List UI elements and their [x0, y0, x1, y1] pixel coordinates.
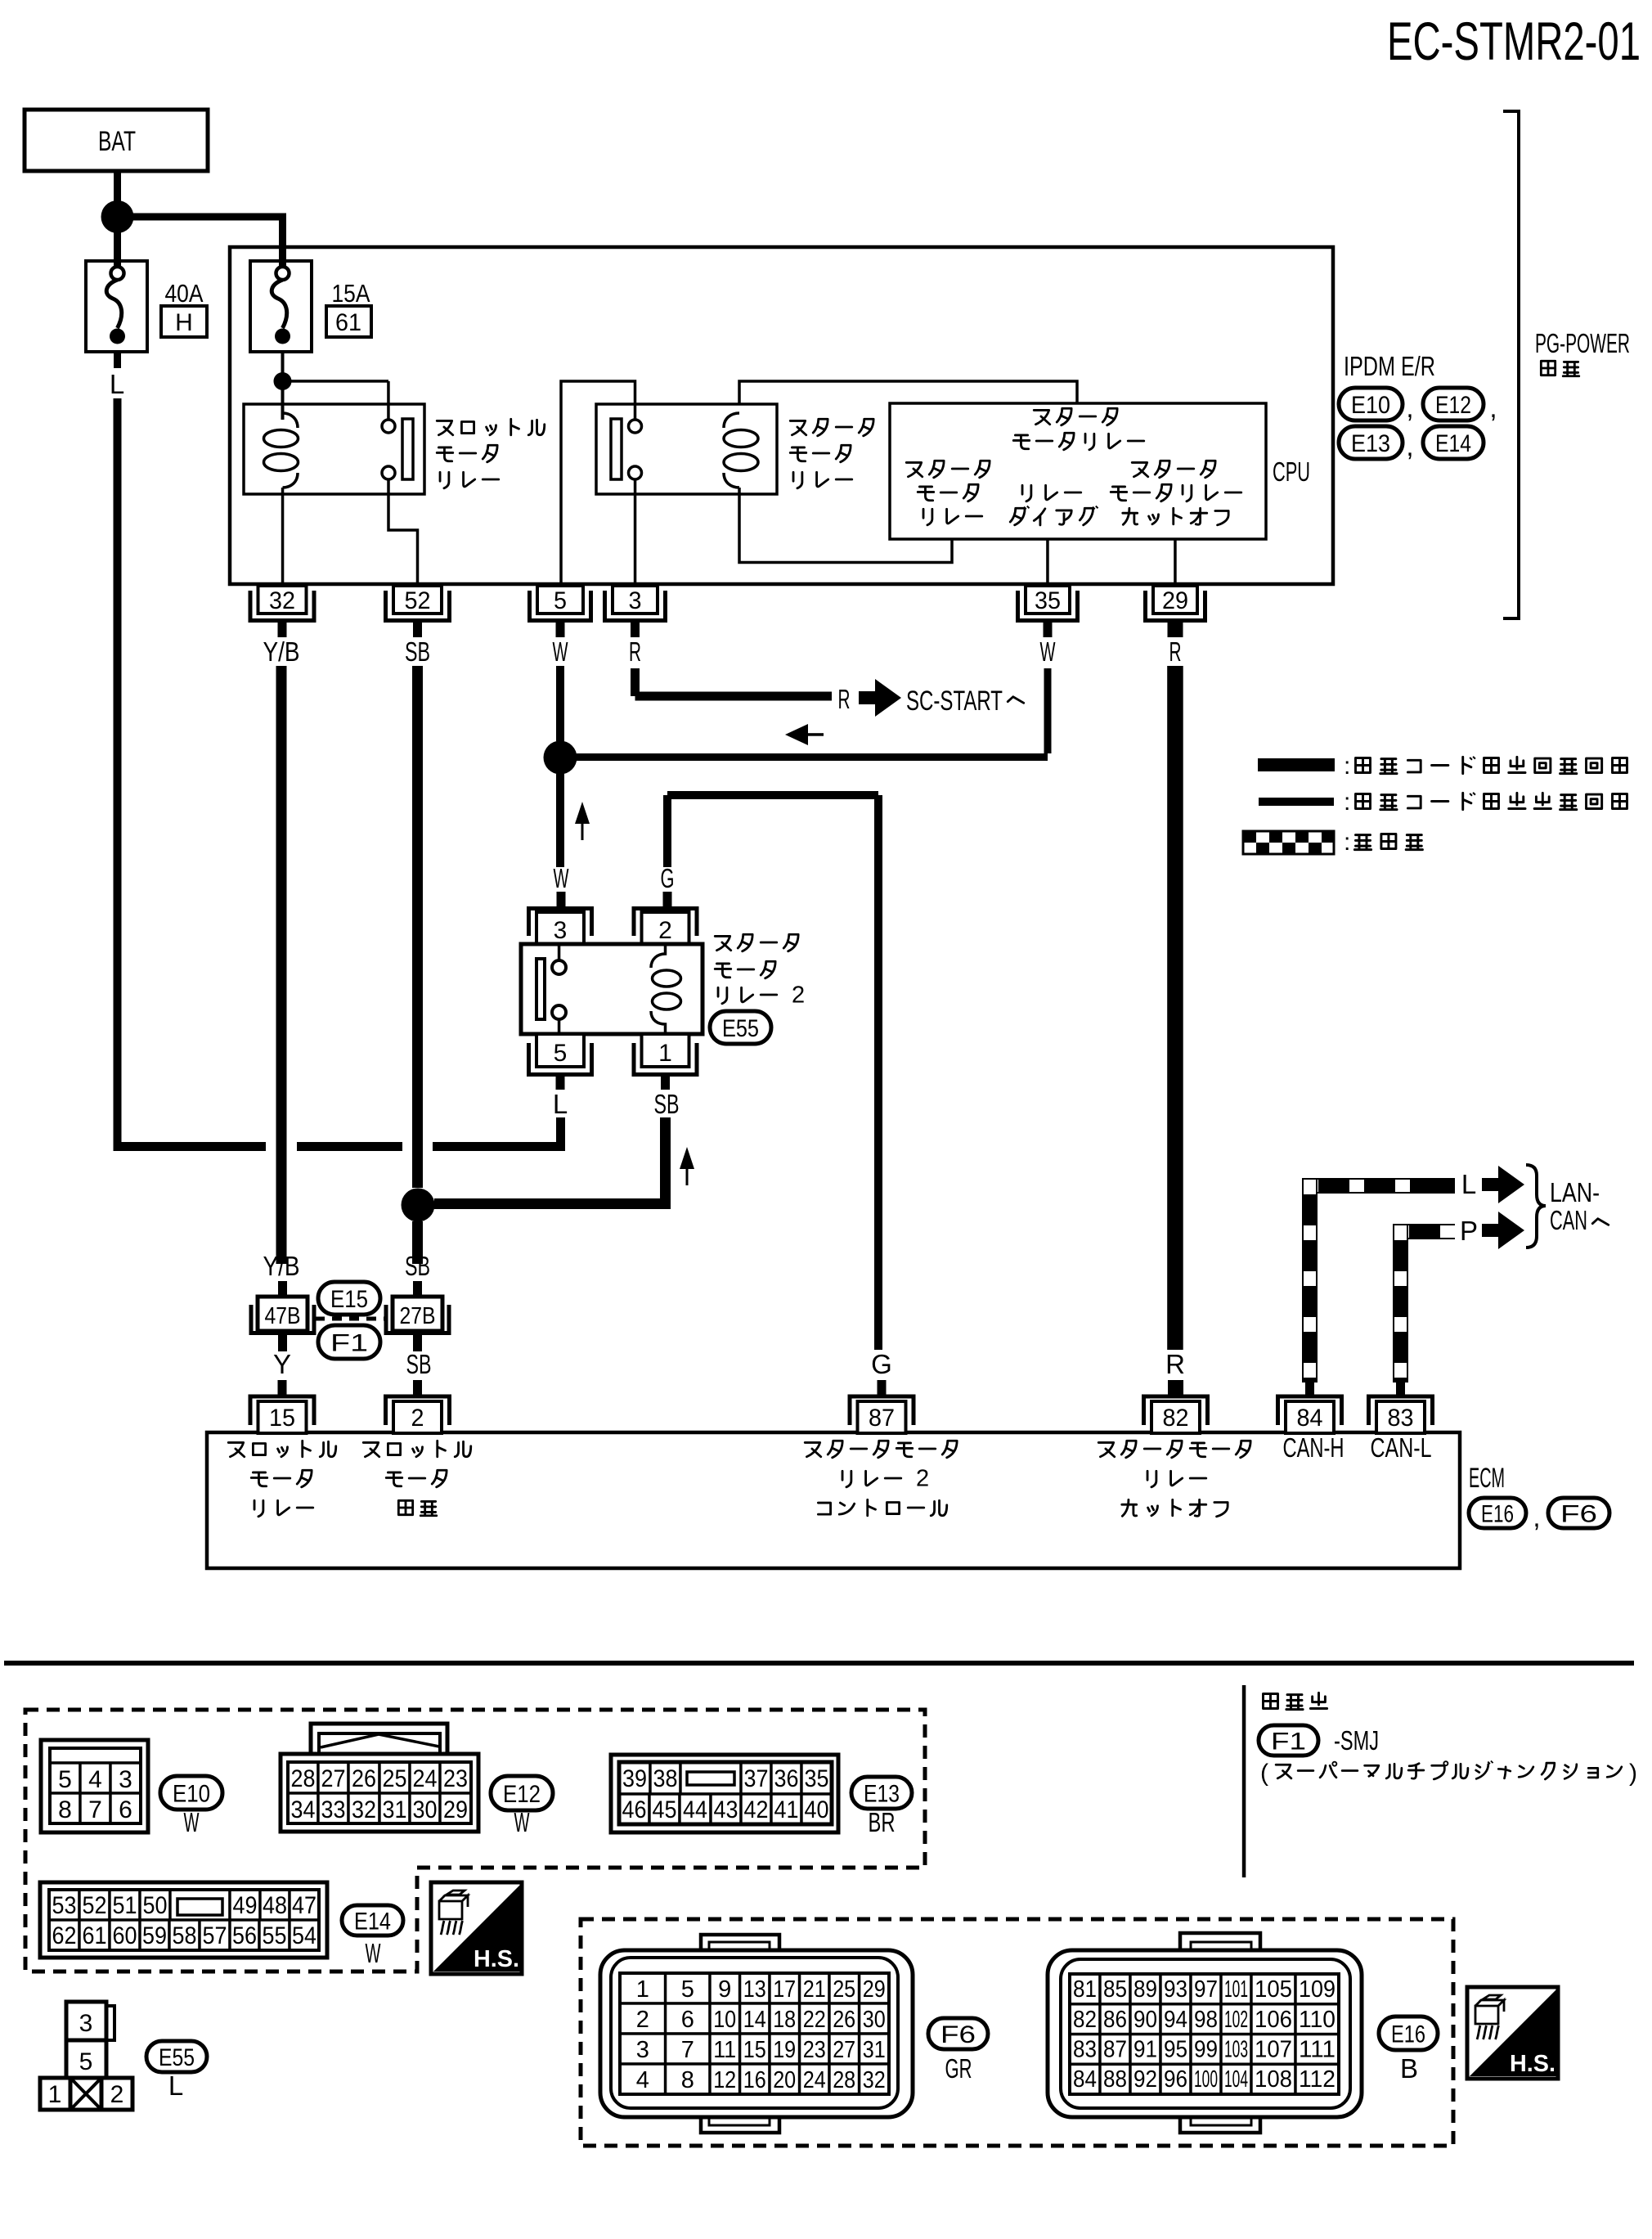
svg-text:51: 51 [113, 1892, 137, 1919]
svg-text:42: 42 [744, 1796, 769, 1823]
svg-text:25: 25 [383, 1765, 407, 1792]
svg-text:106: 106 [1255, 2007, 1292, 2033]
svg-text:24: 24 [803, 2067, 826, 2093]
svg-text:W: W [1040, 636, 1057, 667]
svg-text:CAN-L: CAN-L [1371, 1432, 1432, 1463]
svg-text:L: L [110, 369, 124, 399]
svg-text:36: 36 [774, 1765, 799, 1792]
svg-text:103: 103 [1224, 2037, 1248, 2063]
svg-text::: : [1344, 789, 1350, 816]
svg-text:10: 10 [713, 2007, 736, 2033]
svg-text:60: 60 [113, 1922, 137, 1949]
svg-text:E10: E10 [1351, 392, 1390, 419]
svg-text:EC-STMR2-01: EC-STMR2-01 [1387, 11, 1641, 71]
svg-text:4: 4 [636, 2067, 649, 2093]
svg-text:Y: Y [273, 1349, 291, 1379]
svg-text:F1: F1 [330, 1329, 368, 1356]
svg-text:27: 27 [833, 2037, 855, 2063]
svg-text:G: G [661, 863, 675, 893]
svg-text:8: 8 [681, 2067, 694, 2093]
svg-text:14: 14 [743, 2007, 766, 2033]
svg-text:40: 40 [805, 1796, 829, 1823]
svg-text:100: 100 [1194, 2066, 1218, 2093]
svg-text:2: 2 [411, 1405, 424, 1432]
svg-text:E16: E16 [1481, 1500, 1514, 1527]
svg-text:3: 3 [119, 1766, 132, 1793]
svg-text:45: 45 [653, 1796, 677, 1823]
svg-text:5: 5 [79, 2048, 93, 2075]
svg-text:5: 5 [58, 1766, 72, 1793]
svg-text:18: 18 [773, 2007, 796, 2033]
svg-text:86: 86 [1103, 2007, 1127, 2033]
svg-text:43: 43 [714, 1796, 738, 1823]
svg-text:H: H [175, 309, 193, 336]
svg-text:5: 5 [554, 587, 567, 614]
svg-text:5: 5 [681, 1976, 694, 2003]
svg-text:7: 7 [88, 1796, 102, 1823]
svg-text:8: 8 [58, 1796, 72, 1823]
svg-text:LAN-: LAN- [1550, 1177, 1600, 1207]
svg-text:W: W [554, 863, 570, 893]
svg-text:30: 30 [863, 2007, 886, 2033]
svg-text:E12: E12 [503, 1781, 541, 1808]
svg-text:87: 87 [1103, 2037, 1127, 2063]
svg-text:101: 101 [1224, 1976, 1248, 2003]
svg-text:61: 61 [83, 1922, 107, 1949]
svg-text:49: 49 [233, 1892, 258, 1919]
svg-text:7: 7 [681, 2037, 694, 2063]
svg-text:40A: 40A [165, 279, 204, 308]
svg-text:19: 19 [773, 2037, 796, 2063]
svg-text:48: 48 [263, 1892, 287, 1919]
svg-text:29: 29 [863, 1976, 886, 2003]
svg-text:59: 59 [142, 1922, 167, 1949]
svg-text:94: 94 [1164, 2007, 1187, 2033]
svg-text:26: 26 [833, 2007, 855, 2033]
svg-text:L: L [168, 2070, 183, 2101]
svg-text:52: 52 [83, 1892, 107, 1919]
svg-text:47: 47 [292, 1892, 316, 1919]
svg-text:29: 29 [443, 1796, 468, 1823]
svg-text:E12: E12 [1435, 392, 1471, 419]
svg-text:27B: 27B [400, 1303, 436, 1329]
svg-text:W: W [184, 1807, 200, 1837]
svg-text:32: 32 [863, 2067, 886, 2093]
svg-text:11: 11 [713, 2037, 736, 2063]
svg-text:3: 3 [554, 917, 568, 944]
svg-text:2: 2 [110, 2081, 124, 2108]
svg-text:57: 57 [203, 1922, 227, 1949]
svg-text:102: 102 [1224, 2007, 1248, 2033]
svg-text:F1: F1 [1271, 1728, 1306, 1755]
svg-text:28: 28 [291, 1765, 316, 1792]
svg-text:46: 46 [622, 1796, 647, 1823]
svg-text:26: 26 [352, 1765, 376, 1792]
svg-text:84: 84 [1073, 2066, 1097, 2093]
svg-text:CPU: CPU [1273, 456, 1310, 487]
svg-text:GR: GR [945, 2053, 972, 2084]
svg-text:Y/B: Y/B [263, 636, 300, 667]
svg-text:33: 33 [321, 1796, 346, 1823]
svg-text:112: 112 [1299, 2066, 1336, 2093]
svg-text:105: 105 [1255, 1976, 1292, 2003]
svg-text:84: 84 [1297, 1405, 1323, 1432]
svg-text:SB: SB [654, 1089, 680, 1119]
svg-text:24: 24 [413, 1765, 438, 1792]
svg-text:20: 20 [773, 2067, 796, 2093]
svg-text:9: 9 [718, 1976, 731, 2003]
svg-text:15: 15 [269, 1405, 295, 1432]
svg-text:82: 82 [1163, 1405, 1189, 1432]
svg-text:107: 107 [1255, 2037, 1292, 2063]
svg-text:110: 110 [1299, 2007, 1336, 2033]
svg-text:30: 30 [413, 1796, 438, 1823]
svg-text:58: 58 [173, 1922, 197, 1949]
svg-text:22: 22 [803, 2007, 826, 2033]
svg-text:2: 2 [636, 2007, 649, 2033]
svg-text:R: R [629, 636, 641, 667]
svg-text:F6: F6 [940, 2021, 976, 2048]
svg-text:(: ( [1260, 1760, 1268, 1787]
svg-text:97: 97 [1194, 1976, 1218, 2003]
svg-text:90: 90 [1134, 2007, 1157, 2033]
svg-text:93: 93 [1164, 1976, 1187, 2003]
svg-text:L: L [553, 1089, 568, 1119]
svg-text:E14: E14 [1435, 430, 1471, 457]
svg-text:17: 17 [773, 1976, 796, 2003]
svg-text:SB: SB [405, 1251, 430, 1281]
svg-text:3: 3 [79, 2010, 93, 2037]
svg-text::: : [1344, 829, 1350, 856]
svg-text:50: 50 [143, 1892, 168, 1919]
svg-text:E55: E55 [722, 1015, 759, 1042]
svg-text:R: R [838, 684, 851, 714]
svg-text:52: 52 [405, 587, 431, 614]
svg-text:G: G [871, 1349, 892, 1379]
svg-text:E55: E55 [159, 2044, 195, 2071]
svg-text:23: 23 [803, 2037, 826, 2063]
svg-text:E10: E10 [173, 1780, 210, 1807]
svg-text:92: 92 [1134, 2066, 1157, 2093]
svg-text:1: 1 [636, 1976, 649, 2003]
svg-text:Y/B: Y/B [263, 1251, 300, 1281]
svg-text:SC-START: SC-START [906, 686, 1003, 717]
svg-text:R: R [1165, 1349, 1185, 1379]
svg-text:39: 39 [622, 1765, 647, 1792]
svg-text:CAN: CAN [1550, 1205, 1587, 1235]
svg-text:91: 91 [1134, 2037, 1157, 2063]
svg-text:44: 44 [683, 1796, 707, 1823]
svg-text:BAT: BAT [98, 126, 136, 157]
svg-text:53: 53 [52, 1892, 77, 1919]
svg-text:85: 85 [1103, 1976, 1127, 2003]
svg-text:6: 6 [681, 2007, 694, 2033]
svg-text:82: 82 [1073, 2007, 1097, 2033]
svg-text:B: B [1400, 2053, 1418, 2084]
svg-text:15: 15 [743, 2037, 766, 2063]
svg-text:87: 87 [869, 1405, 895, 1432]
svg-text:P: P [1460, 1216, 1478, 1246]
svg-text:,: , [1406, 393, 1413, 423]
svg-text:32: 32 [269, 587, 295, 614]
svg-text:108: 108 [1255, 2066, 1292, 2093]
svg-text:W: W [553, 636, 569, 667]
svg-text:54: 54 [292, 1922, 316, 1949]
svg-text:E13: E13 [1351, 430, 1390, 457]
svg-text:25: 25 [833, 1976, 855, 2003]
svg-text:34: 34 [291, 1796, 316, 1823]
svg-text:E15: E15 [330, 1286, 368, 1313]
svg-text:PG-POWER: PG-POWER [1535, 328, 1630, 358]
svg-text:H.S.: H.S. [474, 1946, 519, 1972]
svg-text:62: 62 [52, 1922, 77, 1949]
svg-text:61: 61 [335, 309, 361, 336]
svg-text:4: 4 [88, 1766, 102, 1793]
svg-text:99: 99 [1194, 2037, 1218, 2063]
svg-text:SB: SB [405, 636, 430, 667]
svg-text::: : [1344, 753, 1350, 780]
svg-text:12: 12 [713, 2067, 736, 2093]
svg-text:55: 55 [263, 1922, 287, 1949]
svg-text:21: 21 [803, 1976, 826, 2003]
svg-text:96: 96 [1164, 2066, 1187, 2093]
svg-text:47B: 47B [265, 1303, 301, 1329]
svg-text:29: 29 [1162, 587, 1188, 614]
svg-text:27: 27 [321, 1765, 346, 1792]
svg-text:,: , [1406, 431, 1413, 461]
svg-text:35: 35 [1035, 587, 1061, 614]
svg-text:H.S.: H.S. [1510, 2051, 1555, 2077]
svg-text:5: 5 [554, 1040, 568, 1067]
svg-text:1: 1 [48, 2081, 62, 2108]
svg-text:15A: 15A [332, 279, 370, 308]
svg-text:109: 109 [1299, 1976, 1336, 2003]
svg-text:IPDM E/R: IPDM E/R [1344, 351, 1435, 381]
svg-text:2: 2 [916, 1466, 929, 1492]
svg-text:32: 32 [352, 1796, 376, 1823]
svg-text:81: 81 [1073, 1976, 1097, 2003]
svg-text:3: 3 [636, 2037, 649, 2063]
svg-text:E13: E13 [864, 1780, 900, 1807]
svg-text:83: 83 [1388, 1405, 1414, 1432]
svg-text:6: 6 [119, 1796, 132, 1823]
svg-text:56: 56 [232, 1922, 257, 1949]
svg-text:104: 104 [1224, 2066, 1248, 2093]
svg-text:2: 2 [658, 917, 672, 944]
svg-text:E16: E16 [1391, 2021, 1425, 2048]
svg-text:2: 2 [792, 982, 805, 1009]
svg-text:): ) [1629, 1760, 1637, 1787]
svg-text:28: 28 [833, 2067, 855, 2093]
svg-text:31: 31 [863, 2037, 886, 2063]
svg-text:L: L [1461, 1169, 1476, 1199]
svg-text:R: R [1169, 636, 1182, 667]
svg-text:-SMJ: -SMJ [1334, 1725, 1379, 1756]
svg-text:88: 88 [1103, 2066, 1127, 2093]
svg-text:37: 37 [744, 1765, 769, 1792]
svg-text:111: 111 [1299, 2037, 1336, 2063]
svg-text:16: 16 [743, 2067, 766, 2093]
svg-text:23: 23 [443, 1765, 468, 1792]
svg-text:98: 98 [1194, 2007, 1218, 2033]
svg-text:BR: BR [869, 1807, 896, 1837]
svg-text:3: 3 [629, 587, 642, 614]
svg-text:W: W [366, 1938, 382, 1968]
svg-text:,: , [1533, 1502, 1540, 1532]
svg-text:41: 41 [774, 1796, 799, 1823]
svg-text:F6: F6 [1560, 1500, 1597, 1527]
svg-text:,: , [1489, 393, 1497, 423]
svg-text:31: 31 [383, 1796, 407, 1823]
svg-text:CAN-H: CAN-H [1283, 1432, 1344, 1463]
svg-text:SB: SB [406, 1349, 432, 1379]
svg-text:13: 13 [743, 1976, 766, 2003]
svg-text:E14: E14 [354, 1908, 391, 1935]
svg-text:83: 83 [1073, 2037, 1097, 2063]
svg-text:W: W [514, 1807, 531, 1837]
svg-text:95: 95 [1164, 2037, 1187, 2063]
svg-text:ECM: ECM [1469, 1463, 1505, 1494]
svg-text:1: 1 [658, 1040, 672, 1067]
svg-text:35: 35 [805, 1765, 829, 1792]
svg-text:38: 38 [653, 1765, 678, 1792]
svg-text:89: 89 [1134, 1976, 1157, 2003]
